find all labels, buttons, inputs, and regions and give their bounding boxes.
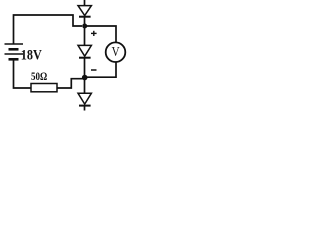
- resistor R (box): [31, 84, 57, 92]
- wire D3 cathode stub: [84, 106, 86, 110]
- wire D2 cathode to node B: [84, 58, 86, 77]
- wire diode chain top lead: [84, 0, 86, 6]
- node A (junction dot): [82, 24, 87, 29]
- label +: [91, 31, 97, 36]
- diode D2 (middle): [78, 45, 91, 57]
- diode D3 (bottom): [78, 93, 91, 105]
- svg-text:18V: 18V: [21, 48, 42, 64]
- wire battery bottom to resistor: [14, 61, 32, 89]
- wire resistor to node B (step up): [57, 79, 83, 88]
- wire node A to voltmeter top: [85, 26, 116, 43]
- wire node A to D2 anode: [84, 26, 86, 46]
- diode D1 (top): [78, 6, 91, 17]
- wire node B to D3 anode: [84, 78, 86, 94]
- voltmeter V: [106, 42, 126, 62]
- svg-text:V: V: [112, 45, 120, 60]
- svg-text:50Ω: 50Ω: [31, 71, 47, 83]
- label minus: [91, 69, 97, 71]
- wire top-left: battery positive up and across the top: [14, 15, 83, 44]
- wire D1 cathode to node A: [84, 17, 86, 27]
- battery 18V: [5, 44, 24, 59]
- wire voltmeter bottom to node B: [85, 62, 116, 77]
- node B (junction dot): [82, 75, 88, 81]
